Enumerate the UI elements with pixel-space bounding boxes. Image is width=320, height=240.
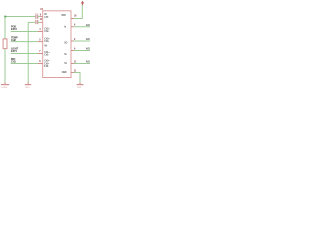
svg-text:EXT1: EXT1 bbox=[11, 50, 18, 53]
pin 4 stub bbox=[38, 41, 43, 43]
wire LIGHT bbox=[11, 53, 38, 55]
pin name VDD bbox=[61, 15, 66, 17]
pin name POS-a bbox=[44, 28, 50, 30]
ground GND3 bbox=[77, 83, 84, 89]
svg-text:4: 4 bbox=[39, 28, 41, 31]
wire AOUT3 bbox=[74, 63, 91, 65]
wire cap C1 to pin bbox=[38, 16, 40, 18]
wire GND net bbox=[74, 73, 81, 84]
pin 7 stub right bbox=[71, 26, 74, 28]
svg-text:LPF: LPF bbox=[44, 17, 49, 19]
pin name MIC-a bbox=[44, 61, 50, 63]
reference U1 bbox=[40, 7, 44, 11]
capacitor C1 bbox=[35, 14, 37, 19]
pin name LIGHT-b bbox=[44, 54, 49, 56]
pin 5 number bbox=[39, 51, 41, 53]
wire AOUT1 bbox=[74, 40, 91, 42]
svg-text:AOU: AOU bbox=[86, 24, 90, 27]
pin name POS-b bbox=[44, 31, 49, 33]
pin name TEMP-a bbox=[44, 38, 50, 40]
pin 8 stub right bbox=[71, 40, 74, 42]
pin 1 stub bbox=[40, 16, 43, 18]
wire cap C2 to pin bbox=[38, 21, 40, 23]
svg-text:GNDA: GNDA bbox=[1, 86, 7, 89]
wire net B horizontal bbox=[28, 21, 35, 23]
IC U1 body bbox=[43, 11, 71, 78]
svg-text:GND: GND bbox=[62, 72, 67, 74]
svg-text:AOU: AOU bbox=[86, 61, 90, 64]
pin name mid bbox=[44, 45, 47, 47]
svg-text:EXT2: EXT2 bbox=[11, 28, 18, 31]
pin VDD stub right bbox=[71, 18, 74, 20]
svg-text:16: 16 bbox=[74, 15, 77, 17]
pin GND number bbox=[74, 70, 77, 72]
svg-text:VDD: VDD bbox=[61, 15, 66, 17]
pin 9 stub right bbox=[71, 50, 74, 52]
power VDD arrow bbox=[81, 1, 85, 5]
pin GND stub right bbox=[71, 72, 74, 74]
label POS bbox=[11, 26, 18, 31]
svg-text:Ch3-: Ch3- bbox=[44, 41, 49, 43]
label AOUT3 bbox=[86, 61, 91, 64]
svg-text:5: 5 bbox=[39, 39, 41, 41]
pin 9 number bbox=[74, 48, 76, 50]
pin name Out0 bbox=[64, 26, 67, 28]
pin name TEMP-b bbox=[44, 41, 49, 43]
label AOUT1 bbox=[86, 38, 91, 41]
pin name Out1 bbox=[64, 42, 67, 44]
pin name MIC-b bbox=[44, 63, 49, 65]
pin 1 number bbox=[40, 14, 42, 16]
pin name Out3 bbox=[64, 63, 67, 65]
pin name Out2 bbox=[64, 54, 67, 56]
svg-text:AOU: AOU bbox=[86, 48, 90, 51]
ground GND2 bbox=[25, 83, 31, 89]
svg-text:SO: SO bbox=[64, 42, 67, 44]
svg-text:9: 9 bbox=[40, 14, 42, 16]
svg-text:CH1: CH1 bbox=[11, 60, 16, 63]
resistor R1 bbox=[3, 39, 7, 49]
pin 8 number bbox=[74, 39, 76, 41]
svg-text:Ch2-: Ch2- bbox=[44, 31, 49, 33]
label LIGHT bbox=[11, 48, 19, 54]
pin name bottom-left bbox=[44, 65, 49, 68]
capacitor C2 bbox=[36, 20, 38, 24]
pin name IN1 bbox=[44, 14, 47, 16]
pin 3 number bbox=[39, 28, 41, 31]
pin name LIGHT-a bbox=[44, 52, 50, 54]
wire TEMP bbox=[11, 41, 38, 43]
pin VDD number bbox=[74, 15, 77, 17]
label MIC bbox=[11, 58, 16, 64]
pin 10 number bbox=[74, 61, 77, 63]
pin 4 number bbox=[39, 39, 41, 41]
pin 2 number bbox=[40, 19, 43, 21]
svg-text:GND: GND bbox=[25, 87, 30, 89]
svg-text:Ch2+: Ch2+ bbox=[44, 28, 50, 30]
wire AOUT0 bbox=[74, 26, 91, 28]
wire POS bbox=[11, 31, 38, 33]
wire MIC bbox=[11, 63, 38, 65]
wire VDD bbox=[74, 4, 83, 18]
svg-text:Ch0-: Ch0- bbox=[44, 63, 49, 65]
junction bbox=[4, 16, 6, 18]
svg-text:8: 8 bbox=[39, 61, 41, 63]
svg-text:GND: GND bbox=[77, 87, 82, 89]
label AOUT2 bbox=[86, 48, 91, 51]
wire left branch down to resistor bbox=[4, 17, 6, 40]
pin 10 stub right bbox=[71, 63, 74, 65]
pin 2 stub bbox=[40, 21, 43, 23]
pin name GND bbox=[62, 72, 67, 74]
wire net B down to ground bbox=[27, 22, 29, 83]
svg-text:C7: C7 bbox=[35, 14, 37, 16]
pin 3 stub bbox=[38, 31, 43, 33]
svg-text:Vrf: Vrf bbox=[44, 45, 47, 47]
label TEMP bbox=[11, 37, 18, 42]
wire resistor to ground bbox=[4, 49, 6, 83]
pin 5 stub bbox=[38, 53, 43, 55]
label AOUT0 bbox=[86, 24, 91, 27]
ground GND1 bbox=[1, 83, 9, 89]
wire net MIC_IN horizontal top bbox=[5, 16, 35, 18]
pin name IN2 bbox=[44, 17, 49, 19]
pin 6 number bbox=[39, 61, 41, 63]
svg-text:AOU: AOU bbox=[86, 38, 90, 41]
svg-text:7: 7 bbox=[39, 51, 41, 53]
pin 6 stub bbox=[38, 63, 43, 65]
wire AOUT2 bbox=[74, 50, 91, 52]
svg-text:Ch1-: Ch1- bbox=[44, 54, 49, 56]
pin 7 number bbox=[74, 25, 76, 27]
svg-text:Ch3+: Ch3+ bbox=[44, 38, 50, 40]
